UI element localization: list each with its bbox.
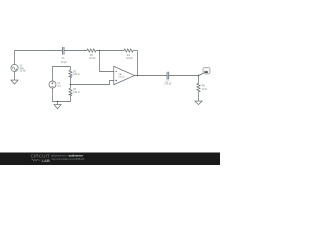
resistor R3 (87, 49, 96, 52)
node B dot (70, 84, 72, 86)
svg-text:R2: R2 (73, 71, 77, 73)
ground (R6) (195, 101, 202, 105)
resistor R6 (197, 76, 200, 101)
node A dot (99, 50, 101, 52)
svg-text:100 Ω: 100 Ω (73, 74, 80, 76)
node output junction dot (137, 75, 139, 77)
wire divider bottom (53, 96, 71, 102)
wire node A down to op-amp inverting input (100, 51, 114, 72)
wire C2 to output node (169, 75, 199, 77)
capacitor C2 (167, 72, 169, 80)
probe icon (output) tail (199, 73, 204, 75)
op-amp minus pin (115, 71, 117, 73)
wire V1 top horizontal to divider (53, 66, 71, 68)
wire V1 bottom lead (52, 88, 54, 102)
svg-text:5 V: 5 V (57, 86, 61, 88)
svg-text:10 kΩ: 10 kΩ (89, 58, 95, 60)
wire R2 to node B (70, 77, 72, 84)
wire C1 to R3 (64, 50, 87, 52)
svg-text:LM741: LM741 (118, 77, 125, 79)
svg-text:R6: R6 (202, 86, 206, 88)
node V1 ground dot (57, 101, 59, 103)
wire V2 top lead (14, 51, 16, 65)
wire divider top stub (70, 67, 72, 71)
ground (V2) (11, 80, 18, 84)
resistor R4 (124, 49, 133, 52)
node output load dot (198, 75, 200, 77)
svg-text:10 kΩ: 10 kΩ (126, 58, 132, 60)
voltage source V1 (DC) (49, 81, 56, 88)
wire R3 to node A (96, 50, 124, 52)
svg-text:10 µF: 10 µF (61, 62, 68, 64)
wire V1 top lead (52, 67, 54, 82)
voltage source V2 (sine) (11, 64, 18, 71)
svg-text:R1: R1 (73, 89, 77, 91)
wire op-amp output (135, 75, 168, 77)
svg-text:V1: V1 (57, 83, 61, 85)
svg-text:270 µF: 270 µF (164, 84, 172, 86)
svg-text:10 Ω: 10 Ω (202, 89, 207, 91)
svg-text:C1: C1 (62, 58, 66, 60)
wire node B to op-amp plus input (71, 81, 114, 85)
CircuitLab logo zigzag (32, 159, 41, 161)
capacitor C1 (63, 47, 65, 55)
svg-text:jakobsensen / audiomixer: jakobsensen / audiomixer (50, 153, 83, 157)
ground (V1) (54, 102, 61, 109)
wire V2 bottom lead (14, 72, 16, 80)
resistor R2 (69, 70, 72, 77)
resistor R1 (69, 85, 72, 96)
svg-text:20 Hz: 20 Hz (20, 70, 27, 72)
probe icon (output) (203, 67, 210, 74)
op-amp plus pin (115, 80, 117, 82)
watermark bar (0, 153, 220, 166)
svg-text:100 Ω: 100 Ω (73, 92, 80, 94)
wire feedback vertical (137, 51, 139, 76)
svg-text:http://circuitlab.com/c/835d46: http://circuitlab.com/c/835d46 (51, 157, 85, 161)
op-amp OA1 (114, 66, 135, 84)
wire top horizontal to C1 (15, 50, 63, 52)
wire R4 to feedback corner (133, 50, 138, 52)
svg-text:LAB: LAB (42, 158, 50, 163)
svg-text:C2: C2 (166, 81, 170, 83)
